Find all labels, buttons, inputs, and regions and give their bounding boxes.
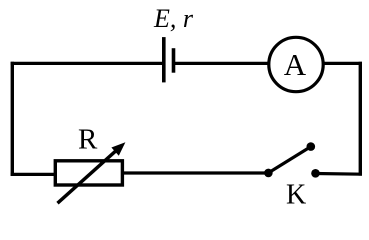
wire bottom-right (switch to right corner) (316, 172, 363, 176)
rheostat R arrow (58, 142, 126, 203)
svg-text:E, r: E, r (153, 4, 194, 33)
switch K lever tip contact (307, 142, 316, 151)
svg-text:K: K (286, 180, 306, 211)
wire ammeter to top-right corner (323, 62, 362, 65)
svg-text:A: A (284, 47, 307, 82)
ammeter U1 (269, 37, 323, 91)
wire top-left (battery to left corner) (11, 62, 164, 65)
wire battery to ammeter (174, 62, 270, 65)
svg-text:R: R (78, 124, 98, 156)
battery E,r plates (164, 37, 174, 82)
wire bottom-left (corner to rheostat) (11, 173, 56, 176)
switch K left contact (264, 169, 273, 178)
wire left vertical (11, 62, 14, 176)
switch K lever (268, 147, 310, 173)
rheostat R body (55, 161, 122, 185)
wire right vertical (359, 62, 362, 176)
switch K right contact (311, 169, 320, 178)
wire rheostat to switch (122, 171, 268, 174)
